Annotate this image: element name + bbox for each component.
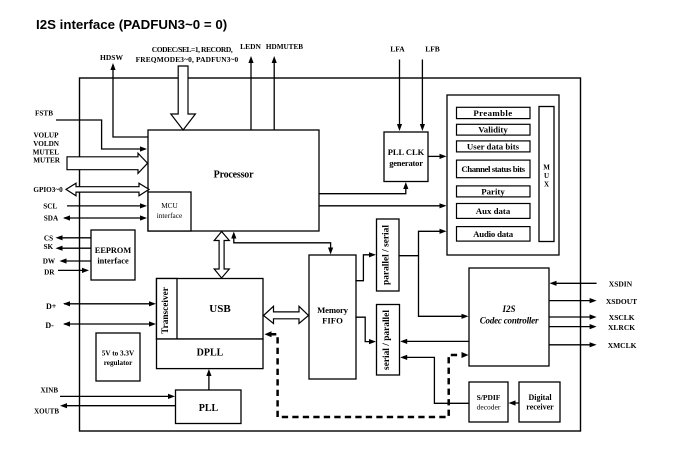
svg-text:XOUTB: XOUTB: [34, 408, 59, 416]
svg-text:DPLL: DPLL: [197, 348, 224, 359]
svg-text:Transceiver: Transceiver: [161, 287, 171, 334]
svg-text:XINB: XINB: [40, 387, 58, 395]
svg-text:SK: SK: [44, 243, 54, 251]
svg-text:regulator: regulator: [104, 359, 133, 367]
svg-text:X: X: [544, 181, 549, 189]
svg-text:Memory: Memory: [317, 305, 348, 315]
svg-text:XSDIN: XSDIN: [609, 279, 633, 288]
svg-text:I2S: I2S: [501, 304, 515, 314]
svg-text:I2S interface (PADFUN3~0 = 0): I2S interface (PADFUN3~0 = 0): [36, 17, 227, 32]
svg-text:XSCLK: XSCLK: [609, 313, 635, 322]
svg-text:interface: interface: [97, 257, 129, 266]
svg-text:MUTER: MUTER: [33, 157, 61, 165]
svg-text:LFA: LFA: [390, 44, 405, 53]
svg-text:FREQMODE3~0, PADFUN3~0: FREQMODE3~0, PADFUN3~0: [136, 55, 239, 64]
svg-text:U: U: [544, 172, 549, 180]
svg-text:Audio data: Audio data: [473, 229, 514, 239]
svg-text:D+: D+: [46, 302, 57, 311]
svg-text:5V to 3.3V: 5V to 3.3V: [102, 350, 135, 358]
svg-text:VOLUP: VOLUP: [33, 132, 59, 140]
svg-text:Parity: Parity: [481, 186, 505, 196]
svg-text:VOLDN: VOLDN: [33, 140, 60, 148]
svg-text:User data bits: User data bits: [467, 141, 520, 151]
svg-text:M: M: [543, 163, 550, 171]
svg-text:HDMUTEB: HDMUTEB: [266, 43, 303, 51]
svg-text:CS: CS: [44, 235, 53, 243]
svg-text:Codec controller: Codec controller: [480, 316, 539, 326]
svg-text:CODEC/SEL=1, RECORD,: CODEC/SEL=1, RECORD,: [152, 45, 233, 54]
svg-text:EEPROM: EEPROM: [95, 246, 132, 255]
svg-text:DW: DW: [43, 258, 56, 266]
svg-text:HDSW: HDSW: [100, 53, 123, 62]
svg-text:USB: USB: [209, 303, 231, 315]
svg-text:SCL: SCL: [43, 202, 57, 210]
svg-text:LEDN: LEDN: [240, 42, 261, 51]
svg-text:generator: generator: [389, 158, 423, 168]
svg-text:PLL: PLL: [199, 403, 219, 414]
svg-text:Aux data: Aux data: [476, 206, 511, 216]
svg-text:decoder: decoder: [477, 403, 501, 412]
svg-text:S/PDIF: S/PDIF: [477, 393, 501, 402]
svg-text:DR: DR: [44, 268, 55, 276]
svg-text:interface: interface: [157, 211, 183, 220]
svg-text:Channel status bits: Channel status bits: [461, 164, 525, 174]
svg-text:Preamble: Preamble: [473, 108, 512, 118]
svg-text:parallel / serial: parallel / serial: [382, 225, 392, 285]
svg-text:MCU: MCU: [161, 201, 178, 210]
svg-text:FIFO: FIFO: [322, 316, 343, 326]
svg-text:Validity: Validity: [478, 125, 508, 135]
svg-text:FSTB: FSTB: [35, 109, 53, 117]
svg-text:Digital: Digital: [528, 393, 552, 402]
svg-text:LFB: LFB: [425, 44, 440, 53]
svg-text:XSDOUT: XSDOUT: [606, 297, 637, 306]
svg-text:PLL CLK: PLL CLK: [388, 147, 425, 157]
svg-text:GPIO3~0: GPIO3~0: [33, 186, 63, 194]
svg-text:receiver: receiver: [526, 403, 554, 412]
svg-text:Processor: Processor: [214, 170, 254, 181]
svg-text:XMCLK: XMCLK: [608, 341, 637, 350]
svg-text:D-: D-: [45, 321, 54, 330]
svg-text:SDA: SDA: [44, 215, 59, 223]
svg-text:serial / parallel: serial / parallel: [382, 310, 392, 370]
svg-text:XLRCK: XLRCK: [608, 323, 635, 332]
svg-text:MUTEL: MUTEL: [33, 148, 60, 156]
